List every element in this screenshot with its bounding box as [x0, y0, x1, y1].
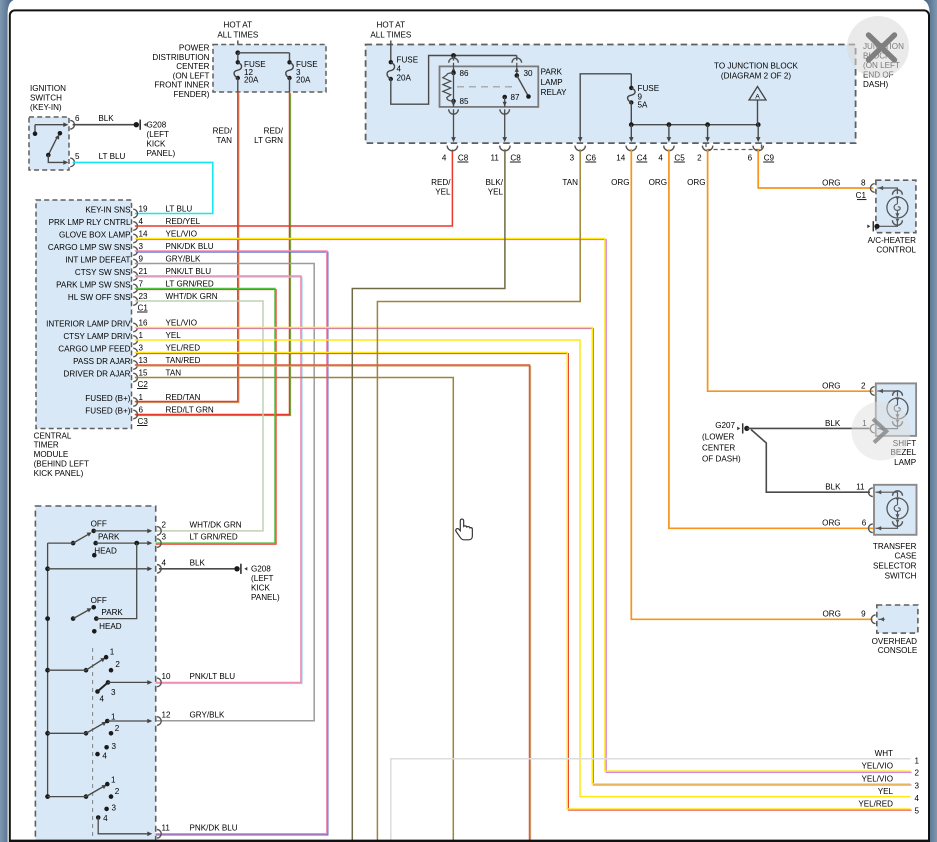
svg-text:PARK LMP SW SNS: PARK LMP SW SNS [56, 280, 131, 289]
svg-text:PARK: PARK [541, 68, 563, 77]
wire hot feed into fuse 4 [390, 41, 392, 63]
svg-text:(ON LEFT: (ON LEFT [173, 71, 210, 80]
svg-text:2: 2 [115, 660, 120, 669]
transfer case selector switch box [874, 485, 917, 535]
headlamp switch rotary section 4 [84, 731, 89, 736]
wire ORG junction C5 pin 4 to transfer case switch [669, 149, 874, 528]
svg-text:A: A [755, 94, 760, 101]
wire RED/TAN from fuse 12 to CTM FUSED(B+) pin 1 [136, 93, 239, 403]
svg-text:BLK: BLK [825, 483, 841, 492]
CTM pin 9 GRY/BLK [133, 259, 137, 268]
ground G208 (left kick panel) [134, 122, 139, 127]
headlamp switch pin 4 line [48, 568, 151, 570]
svg-text:11: 11 [856, 483, 865, 492]
wire TAN feed inside junction block [580, 74, 631, 140]
fuse 4 20A [389, 60, 393, 64]
svg-text:3: 3 [139, 242, 144, 251]
svg-text:TAN: TAN [166, 369, 182, 378]
svg-text:LT GRN/RED: LT GRN/RED [190, 533, 238, 542]
svg-text:HEAD: HEAD [99, 622, 122, 631]
CTM pin 14 YEL/VIO [133, 234, 137, 243]
wire LT BLU ignition pin 5 to CTM pin 19 [73, 162, 213, 213]
wire fuse 4 to relay contacts [391, 56, 517, 105]
CTM pin 21 PNK/LT BLU [133, 272, 137, 281]
svg-text:2: 2 [915, 769, 920, 778]
svg-text:CTSY SW SNS: CTSY SW SNS [75, 268, 131, 277]
svg-text:ALL TIMES: ALL TIMES [370, 31, 412, 40]
svg-text:CENTER: CENTER [176, 62, 209, 71]
wire TAN CTM pin 15 down off page [135, 378, 454, 842]
transfer case pin 6 connector [876, 527, 883, 529]
svg-text:11: 11 [162, 823, 171, 832]
svg-text:ORG: ORG [822, 381, 840, 390]
svg-text:C3: C3 [138, 417, 149, 426]
central timer module box [36, 200, 132, 429]
CTM pin 19 LT BLU [133, 209, 137, 218]
svg-text:PNK/DK BLU: PNK/DK BLU [166, 242, 214, 251]
svg-text:HOT AT: HOT AT [224, 21, 253, 30]
junction block bottom connectors [447, 146, 457, 151]
svg-text:2: 2 [861, 381, 866, 390]
relay armature contact 30 [515, 73, 520, 78]
CTM pin 15 TAN [133, 373, 137, 382]
svg-text:INT LMP DEFEAT: INT LMP DEFEAT [65, 255, 130, 264]
svg-text:FENDER): FENDER) [174, 90, 210, 99]
svg-text:TO JUNCTION BLOCK: TO JUNCTION BLOCK [714, 62, 799, 71]
svg-text:1: 1 [111, 712, 116, 721]
svg-text:LT BLU: LT BLU [166, 205, 193, 214]
A/C-heater illumination lamp [879, 188, 897, 194]
svg-text:PNK/LT BLU: PNK/LT BLU [166, 267, 212, 276]
svg-text:YEL: YEL [166, 331, 182, 340]
wire YEL/VIO CTM pin 16 to instrument cluster pin 3 [136, 329, 912, 785]
wire BLK G207 to shift bezel pin 1 [747, 427, 870, 429]
svg-text:C1: C1 [138, 303, 149, 312]
svg-text:3: 3 [112, 803, 117, 812]
svg-text:14: 14 [616, 153, 626, 162]
svg-text:POWER: POWER [179, 44, 210, 53]
svg-text:A/C-HEATER: A/C-HEATER [868, 236, 917, 245]
svg-text:SELECTOR: SELECTOR [873, 562, 917, 571]
svg-text:16: 16 [139, 319, 149, 328]
svg-text:LT BLU: LT BLU [99, 152, 126, 161]
headlamp switch section 2 wiper [71, 616, 76, 621]
wire ORG junction pin 2 to shift bezel lamp [708, 149, 874, 391]
svg-text:GRY/BLK: GRY/BLK [190, 711, 226, 720]
CTM pin 6 RED/LT GRN [133, 410, 137, 419]
svg-text:HEAD: HEAD [94, 547, 117, 556]
svg-text:12: 12 [162, 711, 172, 720]
svg-text:ALL TIMES: ALL TIMES [217, 31, 259, 40]
wire GRY/BLK CTM pin 9 to switch pin 12 [135, 264, 314, 721]
svg-text:KICK: KICK [147, 140, 166, 149]
next page chevron overlay [852, 402, 911, 461]
CTM pin 23 WHT/DK GRN [133, 297, 137, 306]
wire YEL/RED CTM pin 3 to instrument cluster pin 5 [136, 354, 912, 810]
wire WHT/DK GRN CTM pin 23 to switch pin 2 [135, 301, 263, 531]
svg-text:20A: 20A [244, 76, 259, 85]
svg-text:(LEFT: (LEFT [251, 574, 274, 583]
headlamp switch ground bus [47, 543, 49, 797]
svg-text:LAMP: LAMP [541, 78, 563, 87]
wire YEL CTM pin 1 to instrument cluster pin 4 [135, 340, 911, 797]
svg-text:(BEHIND LEFT: (BEHIND LEFT [34, 460, 89, 469]
svg-text:PARK: PARK [98, 532, 120, 541]
junction block box [366, 45, 856, 144]
transfer case lamp [887, 498, 908, 519]
svg-text:(LEFT: (LEFT [147, 130, 170, 139]
wire PNK/LT BLU CTM pin 21 to switch pin 10 [136, 277, 302, 683]
ground G208 lower (left kick panel) [234, 566, 239, 571]
svg-text:YEL: YEL [878, 787, 894, 796]
rotary 5 contact 4 to pin 11 [98, 818, 150, 834]
wire PNK/DK BLU CTM pin 3 to switch pin 11 [136, 252, 328, 835]
svg-text:5A: 5A [638, 101, 649, 110]
CTM pin 13 TAN/RED [133, 361, 137, 370]
svg-text:CONTROL: CONTROL [876, 246, 916, 255]
headlamp switch section 1 wiper [71, 541, 76, 546]
junction block output drops [630, 125, 632, 138]
pin 5 connector [70, 158, 74, 167]
A/C-heater internal ground [880, 221, 898, 226]
svg-text:ORG: ORG [687, 178, 705, 187]
svg-text:PNK/LT BLU: PNK/LT BLU [190, 672, 236, 681]
svg-text:4: 4 [397, 65, 402, 74]
svg-text:9: 9 [861, 610, 866, 619]
svg-text:(LOWER: (LOWER [702, 432, 735, 441]
svg-text:2: 2 [697, 153, 702, 162]
svg-text:HL SW OFF SNS: HL SW OFF SNS [68, 293, 131, 302]
svg-text:C1: C1 [856, 191, 867, 200]
svg-text:KICK: KICK [251, 584, 270, 593]
svg-text:ORG: ORG [822, 519, 840, 528]
relay coil [451, 71, 456, 76]
svg-text:6: 6 [862, 519, 867, 528]
window right border bar [924, 0, 937, 842]
CTM pin 1 RED/TAN [133, 398, 137, 407]
A/C-heater control box [876, 180, 916, 233]
svg-text:YEL/RED: YEL/RED [166, 344, 201, 353]
svg-text:4: 4 [100, 695, 105, 704]
svg-text:9: 9 [139, 255, 144, 264]
svg-text:KEY-IN SNS: KEY-IN SNS [85, 205, 131, 214]
svg-text:SWITCH: SWITCH [885, 571, 917, 580]
overhead console pin 9 connector [878, 618, 885, 620]
fuse 12 20A [236, 60, 240, 64]
window left border bar [0, 0, 14, 842]
rotary 4 contact 1 to pin 12 [107, 720, 150, 722]
svg-text:C5: C5 [674, 153, 685, 162]
svg-text:C8: C8 [458, 153, 469, 162]
wire BLK G207 branch to transfer case pin 11 [751, 430, 870, 493]
pin 6 connector [70, 120, 74, 129]
CTM pin 3 PNK/DK BLU [133, 247, 137, 256]
shift bezel pin 1 connector [877, 428, 884, 430]
svg-text:DASH): DASH) [863, 80, 888, 89]
svg-text:OFF: OFF [91, 520, 107, 529]
wire YEL/VIO CTM pin 14 to instrument cluster pin 2 [136, 240, 912, 773]
svg-text:CARGO LMP SW SNS: CARGO LMP SW SNS [48, 243, 131, 252]
svg-text:1: 1 [139, 393, 144, 402]
svg-text:RED/: RED/ [264, 127, 284, 136]
svg-text:KICK PANEL): KICK PANEL) [34, 469, 84, 478]
svg-text:GLOVE BOX LAMP: GLOVE BOX LAMP [59, 230, 131, 239]
svg-text:IGNITION: IGNITION [30, 84, 66, 93]
svg-text:LT GRN: LT GRN [254, 136, 283, 145]
svg-text:G208: G208 [251, 564, 271, 573]
svg-text:2: 2 [162, 520, 167, 529]
svg-text:PANEL): PANEL) [147, 149, 176, 158]
svg-text:10: 10 [162, 672, 172, 681]
shift bezel lamp box [876, 383, 916, 436]
svg-text:20A: 20A [397, 74, 412, 83]
svg-text:BLK/: BLK/ [485, 178, 503, 187]
svg-text:YEL: YEL [488, 188, 504, 197]
transfer case pin 11 connector [876, 491, 883, 493]
wire ORG junction C4 pin 14 to overhead console [631, 149, 872, 619]
CTM pin 3 YEL/RED [133, 348, 137, 357]
svg-text:LAMP: LAMP [894, 458, 916, 467]
svg-text:RED/TAN: RED/TAN [166, 393, 201, 402]
svg-text:4: 4 [102, 751, 107, 760]
relay pin 87 exit [504, 97, 506, 107]
window bottom border [10, 840, 930, 842]
svg-text:3: 3 [111, 688, 116, 697]
CTM pin 1 YEL [133, 336, 137, 345]
wire TAN/RED CTM pin 13 down off page [136, 366, 531, 842]
svg-text:87: 87 [511, 93, 521, 102]
svg-text:CENTRAL: CENTRAL [34, 431, 72, 440]
junction block C9 connector notch [706, 143, 762, 149]
svg-text:23: 23 [139, 292, 149, 301]
svg-text:PNK/DK BLU: PNK/DK BLU [190, 823, 238, 832]
svg-text:PRK LMP RLY CNTRL: PRK LMP RLY CNTRL [49, 218, 131, 227]
svg-text:CONSOLE: CONSOLE [878, 646, 918, 655]
svg-text:YEL/VIO: YEL/VIO [862, 774, 894, 783]
svg-text:BLK: BLK [825, 419, 841, 428]
svg-text:MODULE: MODULE [34, 450, 69, 459]
wire from hot feed into PDC [237, 41, 239, 53]
overhead console box [877, 605, 918, 633]
svg-text:DRIVER DR AJAR: DRIVER DR AJAR [63, 369, 130, 378]
svg-text:CASE: CASE [894, 552, 917, 561]
svg-text:19: 19 [139, 205, 149, 214]
svg-text:5: 5 [75, 152, 80, 161]
svg-text:G208: G208 [147, 120, 167, 129]
svg-text:2: 2 [115, 724, 120, 733]
headlamp switch inner divider [92, 648, 94, 842]
svg-text:GRY/BLK: GRY/BLK [166, 255, 202, 264]
svg-text:ORG: ORG [611, 178, 629, 187]
svg-text:WHT: WHT [875, 749, 893, 758]
svg-text:85: 85 [460, 97, 470, 106]
svg-text:3: 3 [139, 344, 144, 353]
CTM pin 4 RED/YEL [133, 222, 137, 231]
svg-text:WHT/DK GRN: WHT/DK GRN [166, 292, 218, 301]
svg-text:OF DASH): OF DASH) [702, 454, 741, 463]
svg-text:3: 3 [915, 782, 920, 791]
power distribution center box [213, 45, 326, 93]
svg-text:15: 15 [139, 369, 149, 378]
svg-text:CARGO LMP FEED: CARGO LMP FEED [58, 344, 130, 353]
wire RED/YEL CTM pin 4 to junction block C8 pin 4 [135, 150, 453, 227]
node feed junction [235, 50, 240, 55]
wire BLK switch pin 4 to ground G208 [159, 568, 235, 570]
wire ORG junction C9 pin 6 to A/C-heater control [758, 149, 873, 188]
svg-text:YEL: YEL [435, 188, 451, 197]
svg-text:ORG: ORG [649, 178, 667, 187]
svg-text:WHT/DK GRN: WHT/DK GRN [190, 520, 242, 529]
shift bezel pin 2 connector [877, 390, 884, 392]
svg-text:14: 14 [139, 230, 149, 239]
mouse cursor [456, 519, 473, 540]
close button overlay [847, 16, 909, 78]
svg-text:ORG: ORG [822, 178, 840, 187]
off-page triangle A [749, 87, 766, 101]
wire RED/LT GRN from fuse 3 to CTM FUSED(B+) pin 6 [136, 93, 291, 416]
svg-text:RED/: RED/ [431, 178, 451, 187]
svg-text:5: 5 [915, 807, 920, 816]
headlamp switch rotary section 3 [84, 668, 89, 673]
svg-text:8: 8 [861, 178, 866, 187]
svg-text:YEL/VIO: YEL/VIO [166, 230, 198, 239]
svg-text:C4: C4 [637, 153, 648, 162]
svg-text:INTERIOR LAMP DRIV: INTERIOR LAMP DRIV [46, 319, 131, 328]
svg-text:FRONT INNER: FRONT INNER [154, 81, 209, 90]
svg-text:(DIAGRAM 2 OF 2): (DIAGRAM 2 OF 2) [721, 72, 791, 81]
ignition switch box [29, 117, 69, 170]
CTM pin 7 LT GRN/RED [133, 284, 137, 293]
svg-text:CENTER: CENTER [702, 443, 735, 452]
svg-text:TRANSFER: TRANSFER [873, 542, 917, 551]
svg-text:BLK: BLK [190, 558, 206, 567]
wire WHT from bottom edge to cluster pin 1 [391, 759, 911, 842]
shift bezel lamp [879, 391, 898, 397]
svg-text:3: 3 [112, 742, 117, 751]
wire LT GRN/RED CTM pin 7 to switch pin 3 [136, 290, 276, 545]
svg-text:(KEY-IN): (KEY-IN) [30, 103, 62, 112]
svg-text:6: 6 [139, 406, 144, 415]
svg-text:YEL/RED: YEL/RED [858, 799, 893, 808]
svg-text:CTSY LAMP DRIV: CTSY LAMP DRIV [63, 332, 131, 341]
svg-text:OVERHEAD: OVERHEAD [872, 637, 918, 646]
wire BLK from ignition pin 6 to ground G208 [73, 124, 134, 126]
svg-text:RED/LT GRN: RED/LT GRN [166, 406, 214, 415]
relay contact 30 feed connector [516, 56, 518, 61]
ignition switch contacts [35, 124, 67, 126]
svg-text:PASS DR AJAR: PASS DR AJAR [73, 357, 131, 366]
svg-text:TAN: TAN [562, 178, 578, 187]
svg-text:3: 3 [162, 533, 167, 542]
svg-text:C2: C2 [138, 380, 149, 389]
fuse 9 5A [629, 86, 633, 90]
CTM pin 16 YEL/VIO [133, 323, 137, 332]
fuse 3 20A [287, 60, 291, 64]
relay coil feed connector [453, 56, 455, 61]
svg-text:6: 6 [75, 114, 80, 123]
svg-text:1: 1 [139, 331, 144, 340]
svg-text:7: 7 [139, 280, 144, 289]
rotary 3 closed contact to pin 10 [98, 682, 109, 691]
wire TAN junction C6 pin 3 down off page [377, 149, 580, 842]
svg-text:21: 21 [139, 267, 149, 276]
svg-text:TAN/RED: TAN/RED [166, 356, 201, 365]
svg-text:BLK: BLK [98, 114, 114, 123]
junction block internal bus [630, 103, 632, 125]
svg-text:YEL/VIO: YEL/VIO [166, 319, 198, 328]
wire BLK/YEL junction C8 pin 11 down off page [352, 149, 505, 842]
svg-text:11: 11 [490, 153, 499, 162]
svg-text:6: 6 [748, 153, 753, 162]
svg-text:C9: C9 [764, 153, 775, 162]
svg-text:LT GRN/RED: LT GRN/RED [166, 280, 214, 289]
relay pin 85 exit [453, 101, 455, 107]
svg-text:4: 4 [103, 814, 108, 823]
svg-text:4: 4 [915, 794, 920, 803]
park lamp relay box [440, 66, 539, 107]
svg-text:YEL/VIO: YEL/VIO [862, 762, 894, 771]
svg-text:RELAY: RELAY [541, 88, 568, 97]
headlamp switch pin 2 line [94, 530, 151, 532]
headlamp switch pin connectors [157, 527, 161, 536]
svg-text:FUSED (B+): FUSED (B+) [85, 406, 131, 415]
headlamp switch rotary section 5 [84, 794, 89, 799]
ignition switch wiper arm [48, 137, 57, 155]
svg-text:DISTRIBUTION: DISTRIBUTION [152, 53, 209, 62]
svg-text:FUSED (B+): FUSED (B+) [85, 394, 131, 403]
svg-text:1: 1 [110, 647, 115, 656]
svg-text:HOT AT: HOT AT [377, 21, 406, 30]
svg-text:13: 13 [139, 356, 149, 365]
svg-text:PARK: PARK [101, 608, 123, 617]
svg-text:OFF: OFF [91, 596, 107, 605]
svg-text:3: 3 [570, 153, 575, 162]
svg-text:1: 1 [915, 756, 920, 765]
svg-text:SWITCH: SWITCH [30, 94, 62, 103]
svg-text:PANEL): PANEL) [251, 593, 280, 602]
relay contact 87 [502, 95, 507, 100]
svg-text:C6: C6 [586, 153, 597, 162]
svg-text:30: 30 [524, 69, 534, 78]
svg-text:20A: 20A [296, 76, 311, 85]
svg-text:TAN: TAN [216, 136, 232, 145]
headlamp switch box [35, 506, 155, 842]
svg-text:86: 86 [460, 69, 470, 78]
A/C-heater pin 8 connector [877, 187, 884, 189]
svg-text:ORG: ORG [822, 610, 840, 619]
svg-text:FUSE: FUSE [397, 56, 419, 65]
svg-text:2: 2 [115, 787, 120, 796]
svg-text:4: 4 [658, 153, 663, 162]
svg-text:4: 4 [139, 217, 144, 226]
svg-text:1: 1 [111, 775, 116, 784]
svg-text:4: 4 [442, 153, 447, 162]
svg-text:C8: C8 [510, 153, 521, 162]
svg-text:RED/YEL: RED/YEL [166, 217, 201, 226]
svg-text:RED/: RED/ [213, 127, 233, 136]
svg-text:G207: G207 [715, 421, 735, 430]
svg-text:4: 4 [162, 558, 167, 567]
relay mechanical link (dashed) [457, 86, 516, 88]
svg-text:TIMER: TIMER [34, 441, 59, 450]
